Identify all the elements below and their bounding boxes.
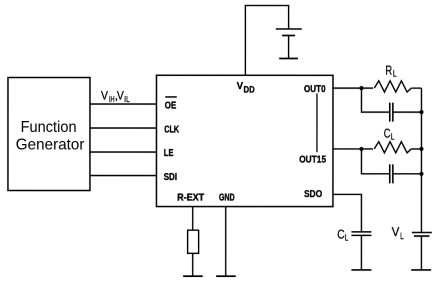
svg-text:V: V <box>117 88 124 102</box>
svg-text:IH: IH <box>109 94 115 104</box>
battery VL plate long <box>412 232 432 234</box>
wire capacitor branch OUT0 <box>361 88 389 112</box>
bus line OUT0 to OUT15 <box>316 93 318 152</box>
battery VDD supply plate long <box>276 28 302 30</box>
wire OE (function generator to IC) <box>90 103 156 105</box>
capacitor (OUT15 load) plate left <box>389 164 391 183</box>
wire resistor RL to rail <box>411 87 421 89</box>
wire GND pin down <box>225 207 227 277</box>
svg-text:IL: IL <box>124 94 130 104</box>
right rail wire <box>420 88 422 232</box>
capacitor CL (SDO load) plate bottom <box>351 234 371 236</box>
ground bar (R-EXT) <box>183 275 203 277</box>
node OUT0 cap rail junction <box>419 110 423 114</box>
wire CLK <box>90 127 156 129</box>
wire OUT0 <box>333 87 373 89</box>
wire SDO <box>333 194 362 231</box>
svg-text:L: L <box>393 69 397 79</box>
wire capacitor OUT15 to rail <box>393 173 422 175</box>
svg-text:SDO: SDO <box>304 189 322 200</box>
node OUT15 junction <box>359 147 363 151</box>
svg-text:C: C <box>384 126 391 141</box>
wire capacitor CL to ground <box>360 235 362 270</box>
IC U1 box <box>156 75 333 206</box>
svg-text:OUT15: OUT15 <box>299 155 326 166</box>
ground bar (VL) <box>411 269 431 271</box>
svg-text:Generator: Generator <box>16 137 85 154</box>
capacitor (OUT15 load) plate right <box>392 164 394 183</box>
svg-text:L: L <box>391 132 395 142</box>
wire R-EXT pin down <box>192 207 194 231</box>
wire SDI <box>90 175 157 177</box>
function generator box <box>8 78 90 191</box>
svg-text:SDI: SDI <box>164 172 178 183</box>
node OUT15 cap rail junction <box>419 172 423 176</box>
svg-text:L: L <box>400 231 404 241</box>
wire VL to ground <box>420 236 422 270</box>
node OUT0 junction <box>359 86 363 90</box>
wire LE <box>90 151 156 153</box>
wire capacitor branch OUT15 <box>361 149 389 174</box>
svg-text:CLK: CLK <box>164 125 180 136</box>
OE overline <box>165 96 177 98</box>
wire VDD pin up <box>245 5 288 75</box>
svg-text:DD: DD <box>243 85 254 96</box>
resistor R-EXT box <box>188 230 199 253</box>
wire capacitor OUT0 to rail <box>393 111 422 113</box>
svg-text:V: V <box>101 88 108 102</box>
svg-text:R-EXT: R-EXT <box>177 193 204 204</box>
ground bar (GND) <box>216 275 236 277</box>
resistor RL zigzag <box>374 81 411 92</box>
svg-text:L: L <box>345 233 349 243</box>
battery VDD supply plate short <box>282 34 295 36</box>
wire resistor OUT15 to rail <box>411 148 421 150</box>
svg-text:OE: OE <box>165 100 177 111</box>
svg-text:Function: Function <box>21 119 77 136</box>
svg-text:C: C <box>337 227 345 242</box>
capacitor (OUT0 load) plate left <box>389 103 391 122</box>
node OUT15 rail junction <box>419 147 423 151</box>
svg-text:R: R <box>385 63 392 78</box>
capacitor (OUT0 load) plate right <box>392 103 394 122</box>
svg-text:V: V <box>392 224 400 239</box>
svg-text:OUT0: OUT0 <box>304 84 326 95</box>
svg-text:GND: GND <box>219 193 235 204</box>
ground bar (VDD supply) <box>279 57 298 59</box>
battery VL plate short <box>414 235 430 237</box>
wire R-EXT resistor to ground <box>192 253 194 276</box>
resistor (OUT15 load) zigzag <box>374 142 411 153</box>
svg-text:LE: LE <box>164 148 174 159</box>
wire OUT15 <box>333 148 373 150</box>
capacitor CL (SDO load) plate top <box>351 231 371 233</box>
ground bar (CL) <box>351 269 371 271</box>
svg-text:V: V <box>237 81 244 92</box>
wire battery to ground <box>288 36 290 59</box>
